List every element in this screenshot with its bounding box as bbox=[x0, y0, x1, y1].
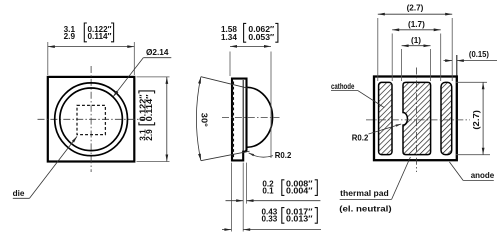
side view horizontal centerline bbox=[222, 117, 280, 119]
dimension (1.7): dimension line bbox=[392, 29, 441, 31]
svg-text:1.34: 1.34 bbox=[221, 33, 237, 42]
svg-text:(2.7): (2.7) bbox=[472, 110, 481, 130]
svg-text:anode: anode bbox=[471, 171, 495, 180]
rotated dimension text (2.7) bbox=[472, 110, 481, 130]
side view: lens dome bbox=[247, 87, 273, 147]
svg-text:(el. neutral): (el. neutral) bbox=[339, 204, 392, 213]
svg-text:cathode: cathode bbox=[331, 82, 355, 91]
dimension (2.7) right: dimension line bbox=[482, 82, 484, 154]
svg-text:0.053″: 0.053″ bbox=[248, 33, 274, 42]
30 degree text (rotated) bbox=[200, 113, 209, 127]
30 degree beam angle: arc with arrows bbox=[196, 77, 201, 161]
svg-text:0.013″: 0.013″ bbox=[286, 215, 313, 224]
dimension 1.58/1.34: dimension line with arrows bbox=[230, 45, 271, 47]
thermal pad (hatched, with R0.2 notch) bbox=[403, 82, 431, 154]
svg-text:(1): (1) bbox=[411, 36, 421, 45]
30 degree beam angle: lower line bbox=[201, 151, 250, 161]
dimension 3.1/2.9 vertical right: extension lines bbox=[137, 76, 170, 78]
vertical centerline (top view) bbox=[90, 66, 92, 172]
svg-text:0.114″: 0.114″ bbox=[88, 32, 112, 41]
dimension (1): extension lines bbox=[401, 49, 403, 81]
dimension (1.7): extension lines bbox=[391, 34, 393, 82]
svg-text:R0.2: R0.2 bbox=[352, 133, 369, 142]
svg-text:(0.15): (0.15) bbox=[469, 50, 489, 59]
svg-text:(2.7): (2.7) bbox=[407, 3, 424, 12]
svg-text:2.9: 2.9 bbox=[64, 32, 76, 41]
svg-text:0.33: 0.33 bbox=[262, 215, 278, 224]
svg-text:0.004″: 0.004″ bbox=[286, 187, 313, 196]
dimension 3.1/2.9 horizontal: extension lines bbox=[47, 42, 49, 75]
package outline (bottom view) bbox=[374, 77, 457, 161]
svg-text:30°: 30° bbox=[200, 113, 209, 127]
svg-text:die: die bbox=[13, 189, 25, 198]
package body outline (top view) bbox=[48, 77, 135, 162]
dimension (2.7) right: extension lines bbox=[456, 81, 488, 83]
dimension 0.2/0.1: dimension line with arrows bbox=[226, 200, 244, 202]
bracket [ bbox=[84, 23, 87, 42]
lens outer circle bbox=[55, 83, 128, 156]
30 degree beam angle: upper line bbox=[201, 77, 248, 89]
rotated dimension text 3.1 [0.122] / 2.9 [0.114] bbox=[138, 91, 154, 141]
dimension 3.1/2.9 horizontal: dimension line with arrows bbox=[48, 46, 135, 48]
dimension 3.1/2.9 vertical: dimension line with arrows bbox=[166, 77, 168, 162]
lens inner circle (diameter 2.14) bbox=[60, 88, 123, 151]
bottom extension lines of side view bbox=[230, 163, 232, 232]
cathode pad (hatched) bbox=[379, 82, 392, 154]
horizontal centerline (top view) bbox=[38, 118, 145, 120]
side view: package outline with lens flange bbox=[232, 79, 247, 161]
die square (hidden, dashed) bbox=[77, 105, 105, 134]
side view: body/flange separation line bbox=[242, 80, 244, 151]
svg-text:Ø2.14: Ø2.14 bbox=[146, 48, 169, 57]
svg-text:R0.2: R0.2 bbox=[275, 151, 292, 160]
dimension 0.43/0.33: dimension line with arrows bbox=[222, 229, 231, 231]
svg-text:thermal pad: thermal pad bbox=[340, 189, 389, 198]
svg-text:0.114″: 0.114″ bbox=[145, 94, 154, 121]
svg-text:2.9: 2.9 bbox=[145, 129, 154, 141]
horizontal centerline (bottom view) bbox=[366, 119, 470, 121]
bracket ] bbox=[111, 23, 114, 42]
dimension (0.15): package edge extension bbox=[456, 55, 458, 76]
svg-text:0.1: 0.1 bbox=[262, 187, 274, 196]
dimension (0.15): dimension line with arrows bbox=[444, 60, 453, 62]
dimension (1): dimension line bbox=[402, 45, 431, 47]
vertical centerline (bottom view) bbox=[416, 68, 418, 173]
side view: substrate hatch strip bbox=[232, 82, 234, 159]
dimension (2.7) top: dimension line bbox=[378, 13, 452, 15]
dimension (2.7) top: extension lines bbox=[377, 18, 379, 81]
anode pad (hatched) bbox=[441, 82, 452, 154]
dimension 1.58/1.34: extension lines bbox=[229, 52, 231, 77]
svg-text:(1.7): (1.7) bbox=[408, 20, 425, 29]
